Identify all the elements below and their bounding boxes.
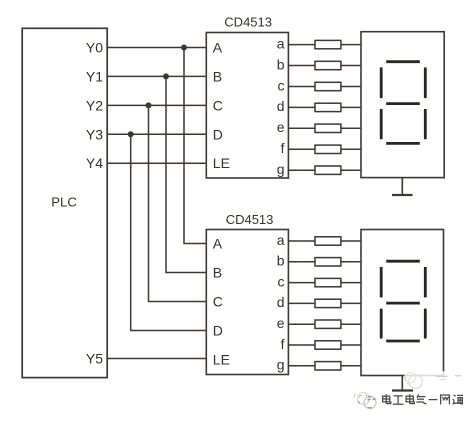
wire U2 c to R10 [288,282,315,284]
svg-text:a: a [277,232,285,248]
svg-text:Y1: Y1 [86,68,103,84]
wire U2 d to R11 [288,302,315,304]
wire R5 to DS1 [341,127,361,129]
resistor R4 [315,103,341,111]
wire R4 to DS1 [341,106,361,108]
wire U2 b to R9 [288,261,315,263]
svg-text:e: e [277,119,285,135]
wire Y3 to U2 pin D [131,134,207,330]
wire U1 e to R5 [288,127,315,129]
IC U2 CD4513 box [206,230,288,375]
DS2 segment f [380,267,383,298]
DS1 segment a [386,60,420,63]
svg-text:A: A [213,40,223,56]
resistor R3 [315,82,341,90]
svg-text:a: a [277,35,285,51]
svg-text:g: g [277,357,285,373]
wire R1 to DS1 [341,44,361,46]
svg-text:d: d [277,98,285,114]
wire Y0 to U2 pin A [184,48,206,244]
DS1 segment g [386,102,420,105]
resistor R11 [315,299,341,307]
DS2 segment g [386,302,420,305]
wire U1 g to R7 [288,169,315,171]
wire Y4 to U1 pin LE [107,162,206,164]
svg-text:B: B [213,68,222,84]
DS1 segment d [386,142,420,145]
wire R6 to DS1 [341,148,361,150]
junction node on Y3 [128,131,134,137]
wire U2 f to R13 [288,344,315,346]
glyph 网 [441,395,450,404]
glyph 气 [416,394,426,403]
watermark text 电工电气一网通 [383,394,463,404]
resistor R14 [315,362,341,370]
resistor R9 [315,258,341,266]
svg-text:CD4513: CD4513 [224,15,272,30]
svg-text:Y0: Y0 [86,40,103,56]
glyph 通 [453,395,463,404]
junction node on Y2 [146,102,152,108]
svg-text:LE: LE [213,352,230,368]
wire Y0 to U1 pin A [107,47,206,49]
watermark ghost logo circle [404,372,422,388]
wire U1 a to R1 [288,44,315,46]
resistor R1 [315,40,341,48]
svg-text:b: b [277,56,285,72]
svg-text:D: D [213,323,223,339]
display DS1 box [361,32,444,178]
wire R14 to DS2 [341,365,361,367]
wire U2 e to R12 [288,323,315,325]
wire R2 to DS1 [341,65,361,67]
wire R9 to DS2 [341,261,361,263]
wire U1 d to R4 [288,106,315,108]
svg-text:PLC: PLC [51,194,77,209]
svg-text:Y3: Y3 [86,126,103,142]
IC U1 CD4513 box [206,33,288,179]
glyph 一 [429,399,438,401]
DS2 segment b [424,267,427,298]
svg-text:A: A [213,236,223,252]
watermark fade patch over DS2 corner [405,371,453,381]
svg-text:Y2: Y2 [86,97,103,113]
junction node on Y1 [163,73,169,79]
wire Y2 to U1 pin C [107,104,206,106]
resistor R5 [315,124,341,132]
svg-text:Y5: Y5 [86,351,103,367]
wire Y3 to U1 pin D [107,133,206,135]
DS1 segment f [380,67,383,98]
DS1 segment b [424,67,427,98]
resistor R10 [315,278,341,286]
resistor R8 [315,237,341,245]
wire R11 to DS2 [341,302,361,304]
wire U1 b to R2 [288,65,315,67]
wire R7 to DS1 [341,169,361,171]
ground GND1 [392,178,413,195]
svg-text:c: c [278,77,285,93]
resistor R12 [315,320,341,328]
wire U1 c to R3 [288,86,315,88]
wire R3 to DS1 [341,86,361,88]
PLC box [22,28,107,377]
svg-text:CD4513: CD4513 [226,212,274,227]
wire U2 a to R8 [288,240,315,242]
svg-text:D: D [213,126,223,142]
glyph 工 [393,396,404,404]
svg-text:Y4: Y4 [86,155,103,171]
DS2 segment a [386,260,420,263]
resistor R13 [315,341,341,349]
svg-text:C: C [213,97,223,113]
svg-text:c: c [278,273,285,289]
watermark ghost text dashes [436,376,461,380]
wire Y1 to U1 pin B [107,75,206,77]
svg-text:d: d [277,294,285,310]
wire R13 to DS2 [341,344,361,346]
wire Y1 to U2 pin B [166,76,206,272]
resistor R2 [315,61,341,69]
svg-text:C: C [213,294,223,310]
wire R8 to DS2 [341,240,361,242]
svg-text:e: e [277,315,285,331]
svg-text:g: g [277,161,285,177]
wire R12 to DS2 [341,323,361,325]
svg-text:f: f [281,336,285,352]
wire R10 to DS2 [341,282,361,284]
DS2 segment e [380,309,383,339]
DS2 segment c [424,309,427,339]
wire Y5 to U2 pin LE [107,358,206,360]
DS2 segment d [386,340,420,343]
watermark logo [354,393,376,409]
wire U2 g to R14 [288,365,315,367]
DS1 segment c [424,109,427,139]
wire U1 f to R6 [288,148,315,150]
resistor R7 [315,166,341,174]
ground GND2 [392,376,413,391]
svg-text:LE: LE [213,155,230,171]
wire Y2 to U2 pin C [149,105,207,301]
glyph 电 [406,394,414,403]
resistor R6 [315,145,341,153]
svg-text:B: B [213,265,222,281]
svg-text:f: f [281,140,285,156]
junction node on Y0 [181,45,187,51]
glyph 电 [383,394,391,403]
svg-text:b: b [277,253,285,269]
DS1 segment e [380,109,383,139]
display DS2 box [361,230,444,376]
